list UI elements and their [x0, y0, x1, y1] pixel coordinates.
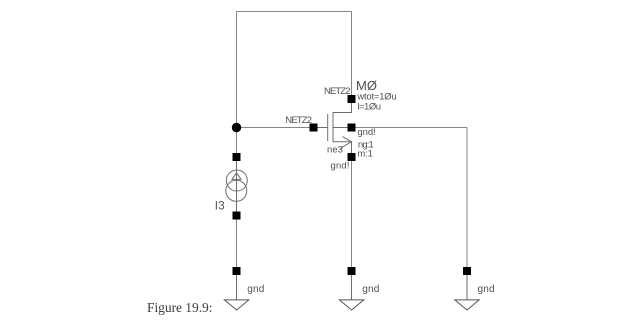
wire bulk to right branch [352, 127, 468, 129]
svg-text:gnd: gnd [362, 284, 379, 295]
svg-text:ne3: ne3 [327, 145, 343, 156]
transistor M0 (nmos4) [314, 99, 352, 157]
svg-text:m:1: m:1 [357, 149, 373, 160]
wire right vertical to gnd [466, 128, 468, 272]
M0 source lead [333, 142, 352, 157]
pin square gnd middle [348, 267, 356, 275]
wire gate NETZ2 (junction to M0 gate) [237, 127, 315, 129]
M0 channel bar [332, 112, 334, 142]
wire gnd middle stub [351, 275, 353, 300]
wire left vertical (top rail to I3) [236, 12, 238, 158]
pin square gnd right [463, 267, 471, 275]
M0 gate bar [327, 114, 329, 141]
gnd left triangle [224, 300, 248, 310]
pin square M0 bulk [348, 124, 356, 132]
node junction dot NETZ2 [232, 123, 241, 132]
pin square M0 source [348, 153, 356, 161]
svg-text:gnd!: gnd! [331, 161, 350, 172]
svg-text:NETZ2: NETZ2 [285, 115, 312, 126]
ground symbol right [455, 267, 479, 310]
svg-text:I3: I3 [215, 201, 225, 213]
gnd right triangle [455, 300, 479, 310]
I3 bottom circle [226, 180, 247, 201]
wire top rail NETZ2 [237, 11, 353, 13]
M0 source arrow [343, 137, 352, 147]
I3 axis wire [236, 157, 238, 216]
pin square gnd left [233, 267, 241, 275]
svg-text:Figure 19.9:: Figure 19.9: [147, 300, 213, 315]
I3 top circle [226, 170, 247, 191]
I3 arrow head [232, 173, 241, 180]
M0 bulk lead [333, 127, 352, 129]
ne3 leader line [340, 146, 344, 149]
svg-text:l=1Øu: l=1Øu [357, 101, 381, 112]
svg-text:NETZ2: NETZ2 [324, 86, 351, 97]
pin square I3 minus [233, 212, 241, 220]
ground symbol middle [339, 267, 363, 310]
svg-text:gnd: gnd [247, 284, 264, 295]
svg-text:gnd!: gnd! [357, 127, 375, 138]
M0 gate lead [314, 127, 328, 129]
wire gnd left stub [236, 275, 238, 300]
pin square M0 drain [348, 95, 356, 103]
wire I3 bottom to gnd [236, 216, 238, 272]
ground symbol left [224, 267, 248, 310]
current source I3 [226, 157, 248, 216]
M0 drain lead [333, 99, 352, 113]
wire gnd right stub [466, 275, 468, 300]
pin square I3 plus [233, 153, 241, 161]
svg-text:gnd: gnd [478, 284, 495, 295]
gnd middle triangle [339, 300, 363, 310]
wire M0 source to gnd [351, 157, 353, 271]
wire drain vertical (top rail to M0 drain) [351, 12, 353, 100]
pin square M0 gate [310, 124, 318, 132]
